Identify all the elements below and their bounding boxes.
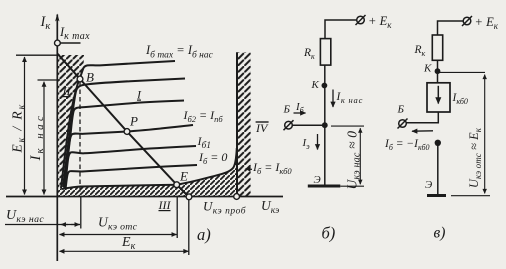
load line	[57, 54, 190, 199]
svg-text:Р: Р	[129, 114, 138, 129]
wire top в	[438, 21, 464, 35]
dashed line Uкэ нас below B	[79, 82, 81, 195]
current arrow Iк нас б	[332, 90, 334, 108]
curve C3 Iб2	[64, 101, 184, 188]
svg-text:III: III	[158, 198, 172, 212]
node K б	[322, 83, 328, 89]
region II hatched saturation band	[57, 55, 84, 190]
curve C4 through P	[65, 125, 194, 188]
svg-text:В: В	[86, 70, 94, 85]
bottom extension line в	[451, 195, 490, 197]
node base junction б	[322, 122, 328, 128]
extension line x=80 below axis	[80, 197, 82, 229]
svg-text:Б: Б	[283, 104, 291, 116]
dimension Eк bottom	[60, 250, 189, 252]
dimension Uкэ нас б	[331, 125, 364, 127]
dimension Uкэ отс bottom	[60, 234, 177, 236]
point Uкэ проб on axis circle	[234, 194, 240, 200]
wire collector to emitter б	[324, 65, 326, 185]
label region IV overline	[256, 121, 269, 123]
wire box to base terminal в	[406, 112, 438, 123]
node K в	[435, 68, 441, 74]
point P circle	[124, 129, 130, 135]
svg-text:Е: Е	[179, 169, 188, 184]
region III hatched bottom strip	[57, 150, 237, 197]
region IV left edge line	[236, 52, 238, 196]
point E circle	[174, 182, 180, 188]
terminal Б в	[399, 120, 407, 128]
resistor Rк б	[320, 39, 330, 66]
curve C2	[63, 79, 185, 188]
region IV hatched breakdown band	[237, 52, 251, 196]
curve C5 Iб1	[65, 146, 196, 189]
terminal +Eк б	[357, 16, 365, 24]
svg-text:Э: Э	[425, 179, 432, 191]
wire resistor to box в	[437, 60, 439, 83]
current source box Iкб0 в	[427, 83, 450, 112]
svg-text:а): а)	[197, 225, 211, 244]
svg-text:Э: Э	[314, 174, 321, 186]
base wire б	[292, 124, 325, 126]
svg-text:Iб = 0: Iб = 0	[198, 150, 227, 166]
emitter bar б	[308, 185, 341, 188]
extension line x=177 below axis	[176, 197, 178, 239]
arrow to curve Iб=Iкб0	[246, 168, 253, 171]
curve C1 Iбmax=Iбнас	[61, 61, 175, 188]
emitter open terminal dot в	[435, 140, 441, 146]
svg-text:К: К	[423, 63, 432, 75]
dimension Uкэ отс в	[484, 75, 486, 194]
svg-text:IV: IV	[255, 121, 269, 135]
dimension Eк/Rк vertical arrow	[24, 57, 26, 195]
x-axis Uкэ	[6, 196, 283, 198]
y-axis Iк	[56, 15, 58, 262]
point B circle	[77, 76, 83, 82]
terminal Б б	[285, 121, 293, 129]
wire top б	[325, 20, 357, 39]
curve C6 Iб=0	[66, 165, 198, 189]
current arrow Iб в	[412, 130, 433, 132]
resistor Rк в	[432, 35, 442, 60]
Iк нас level extension line	[38, 79, 61, 81]
emitter bar в	[427, 194, 446, 197]
svg-text:в): в)	[434, 225, 446, 242]
Iкmax level line	[58, 42, 81, 44]
svg-text:Б: Б	[397, 104, 405, 116]
terminal +Eк в	[463, 17, 471, 25]
E/R level extension line	[16, 54, 60, 56]
point Iкmax circle	[55, 40, 61, 46]
extension line x=188.8 below axis	[188, 197, 190, 256]
extension line from K в	[438, 71, 486, 73]
svg-text:б): б)	[322, 224, 336, 243]
curve C7 cutoff Iб=-Iкб0 breakdown rise	[62, 148, 237, 189]
svg-text:К: К	[311, 79, 320, 91]
point Eк on axis circle	[186, 194, 192, 200]
emitter wire в	[437, 143, 439, 195]
svg-text:II: II	[62, 84, 72, 98]
dimension Uкэ нас bottom	[5, 224, 80, 226]
dimension Iк нас vertical arrow	[43, 82, 45, 195]
